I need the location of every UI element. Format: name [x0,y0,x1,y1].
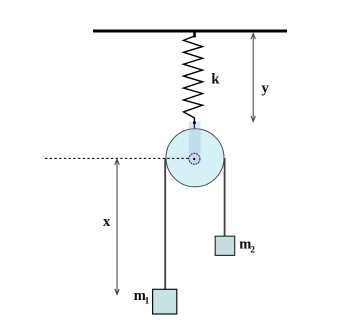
svg-text:x: x [103,214,111,230]
mass m1 block [153,289,177,314]
wire left string [164,158,166,290]
wire right string [224,158,226,237]
wire spring-top tick [193,31,196,38]
mass m2 block [215,236,235,255]
shaft bracket [189,121,201,153]
dimension arrow y [251,34,255,122]
pulley [166,129,224,187]
svg-text:2: 2 [250,246,255,256]
ceiling [93,30,287,33]
svg-text:1: 1 [145,296,150,306]
spring k [184,36,203,130]
node spring-pulley attachment [193,121,196,124]
svg-text:y: y [261,80,269,96]
node axle center [193,158,195,160]
svg-text:k: k [211,72,220,88]
dashed reference line [45,157,193,159]
dimension arrow x [115,159,119,294]
pulley hub [189,153,200,164]
